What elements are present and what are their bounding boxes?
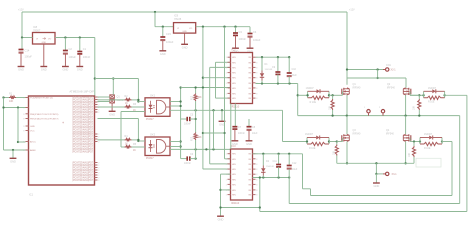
svg-text:IR2110: IR2110	[231, 201, 240, 205]
svg-text:C1: C1	[83, 47, 87, 51]
svg-text:R3: R3	[133, 103, 137, 106]
svg-text:PC817: PC817	[146, 118, 154, 121]
svg-text:VB: VB	[248, 190, 251, 192]
svg-text:8: 8	[256, 78, 258, 80]
svg-text:Q1: Q1	[353, 83, 357, 86]
svg-text:C10: C10	[292, 68, 297, 71]
svg-text:GND: GND	[63, 68, 69, 72]
svg-text:IRF540: IRF540	[353, 87, 362, 90]
svg-text:+: +	[62, 121, 64, 125]
svg-text:GND: GND	[18, 68, 24, 72]
svg-text:10K: 10K	[9, 100, 14, 103]
svg-text:OK1: OK1	[150, 93, 156, 97]
svg-text:HIN: HIN	[232, 164, 236, 166]
svg-text:10K: 10K	[330, 105, 332, 110]
svg-text:10uF: 10uF	[252, 132, 258, 135]
svg-text:ATMEGA8-16P-DIP: ATMEGA8-16P-DIP	[69, 90, 94, 94]
svg-text:100nF: 100nF	[184, 162, 191, 165]
svg-text:Q2: Q2	[387, 83, 391, 86]
svg-text:R5: R5	[133, 143, 137, 146]
svg-text:HIN: HIN	[232, 83, 236, 85]
svg-text:HIN: HIN	[232, 184, 236, 186]
svg-text:8: 8	[256, 179, 258, 181]
svg-text:1: 1	[364, 107, 366, 109]
svg-text:1: 1	[226, 57, 228, 59]
svg-text:C6: C6	[190, 153, 194, 156]
svg-text:100nF: 100nF	[83, 55, 91, 59]
svg-text:9: 9	[23, 114, 25, 116]
svg-text:VB: VB	[248, 159, 251, 161]
svg-text:10uF: 10uF	[292, 169, 298, 171]
svg-text:Q3: Q3	[353, 129, 357, 132]
svg-text:R2: R2	[125, 95, 129, 98]
svg-text:100uF: 100uF	[25, 55, 33, 59]
svg-text:R 10E: R 10E	[309, 148, 316, 150]
svg-text:AVCC: AVCC	[30, 141, 36, 144]
svg-text:1: 1	[226, 73, 228, 75]
svg-text:C3: C3	[239, 30, 243, 34]
svg-text:9: 9	[23, 131, 25, 133]
svg-text:1N4007: 1N4007	[306, 88, 315, 90]
svg-text:2: 2	[98, 142, 100, 144]
svg-text:C5: C5	[190, 114, 194, 117]
svg-text:HIN: HIN	[232, 154, 236, 156]
svg-text:2: 2	[98, 180, 100, 182]
svg-text:8: 8	[256, 98, 258, 100]
svg-text:CN1: CN1	[386, 64, 391, 67]
svg-text:C15: C15	[166, 32, 171, 36]
svg-text:1: 1	[226, 88, 228, 90]
svg-text:IRF540: IRF540	[387, 87, 396, 90]
svg-text:1N4007: 1N4007	[305, 134, 314, 136]
svg-text:VB: VB	[248, 62, 251, 64]
svg-text:HIN: HIN	[232, 179, 236, 181]
svg-text:78L05: 78L05	[174, 17, 182, 21]
svg-text:HIN: HIN	[232, 78, 236, 80]
svg-text:VO: VO	[48, 39, 51, 41]
svg-text:8: 8	[256, 62, 258, 64]
svg-text:9: 9	[23, 119, 25, 121]
svg-text:HIN: HIN	[232, 93, 236, 95]
svg-text:100nF: 100nF	[184, 123, 191, 126]
svg-text:R 10E: R 10E	[424, 148, 431, 150]
svg-text:GND: GND	[374, 184, 380, 188]
svg-text:8: 8	[256, 67, 258, 69]
svg-text:PB6(XTAL1/TOSC1/PCINT6): PB6(XTAL1/TOSC1/PCINT6)	[30, 113, 59, 116]
svg-text:8: 8	[256, 159, 258, 161]
svg-text:8: 8	[256, 93, 258, 95]
svg-text:GND: GND	[160, 52, 166, 56]
svg-text:Q4: Q4	[386, 129, 390, 132]
svg-text:8: 8	[256, 184, 258, 186]
svg-text:R13: R13	[192, 136, 194, 141]
svg-text:D2: D2	[266, 160, 270, 163]
svg-text:8: 8	[256, 169, 258, 171]
svg-text:HIN: HIN	[232, 159, 236, 161]
svg-text:7805T: 7805T	[33, 28, 41, 32]
svg-text:GND: GND	[218, 217, 224, 221]
svg-text:R4: R4	[125, 135, 129, 138]
svg-text:VB: VB	[248, 98, 251, 100]
svg-text:VB: VB	[248, 169, 251, 171]
svg-text:8: 8	[256, 88, 258, 90]
svg-text:IRF540: IRF540	[386, 133, 395, 136]
svg-text:VB: VB	[248, 88, 251, 90]
svg-text:10K: 10K	[414, 105, 416, 110]
svg-text:VI: VI	[177, 28, 179, 30]
svg-text:GND: GND	[232, 142, 238, 146]
svg-text:10K: 10K	[198, 97, 203, 99]
svg-text:GND: GND	[41, 68, 47, 72]
svg-text:D1: D1	[265, 63, 269, 66]
svg-text:GND: GND	[30, 126, 35, 128]
svg-text:IC2: IC2	[232, 48, 237, 52]
svg-text:GND: GND	[246, 142, 252, 146]
svg-text:GND: GND	[182, 46, 188, 50]
svg-text:HIN: HIN	[232, 73, 236, 75]
svg-text:100uF: 100uF	[166, 40, 174, 44]
svg-text:C11: C11	[273, 160, 278, 163]
svg-text:VB: VB	[248, 93, 251, 95]
svg-text:VI: VI	[36, 39, 38, 41]
svg-text:(PCINT23/AIN1)PD7: (PCINT23/AIN1)PD7	[72, 151, 94, 154]
svg-text:C14: C14	[25, 49, 30, 53]
svg-text:1N4148: 1N4148	[266, 166, 274, 168]
svg-text:AREF: AREF	[30, 149, 36, 152]
svg-text:VB: VB	[248, 179, 251, 181]
svg-text:R1: R1	[9, 93, 13, 96]
svg-text:PC6(RESET/PCINT14): PC6(RESET/PCINT14)	[30, 98, 53, 100]
svg-text:C12: C12	[292, 162, 297, 165]
svg-text:C8: C8	[252, 126, 256, 129]
svg-text:100uF: 100uF	[253, 38, 261, 42]
svg-text:GND: GND	[10, 160, 16, 164]
svg-text:8: 8	[256, 190, 258, 192]
svg-text:R12: R12	[192, 95, 194, 100]
svg-text:C7: C7	[238, 126, 242, 129]
svg-text:VCC: VCC	[30, 131, 35, 133]
svg-text:VB: VB	[248, 195, 251, 197]
svg-text:GND: GND	[109, 113, 115, 117]
svg-text:10uF: 10uF	[292, 75, 298, 77]
svg-text:1: 1	[226, 154, 228, 156]
svg-text:100uF: 100uF	[69, 55, 77, 59]
svg-text:1: 1	[226, 179, 228, 181]
svg-text:IRF540: IRF540	[353, 133, 362, 136]
svg-text:PB7(XTAL2/TOSC2/PCINT7): PB7(XTAL2/TOSC2/PCINT7)	[30, 118, 59, 121]
svg-text:R 10E: R 10E	[310, 102, 317, 104]
svg-text:100nF: 100nF	[238, 132, 245, 135]
svg-text:2: 2	[98, 112, 100, 114]
svg-text:(PCINT23/AIN1)PD7: (PCINT23/AIN1)PD7	[72, 179, 94, 182]
svg-text:VB: VB	[248, 57, 251, 59]
svg-text:HIN: HIN	[232, 190, 236, 192]
svg-text:VB: VB	[248, 184, 251, 186]
svg-text:VB: VB	[248, 174, 251, 176]
svg-text:HIN: HIN	[232, 67, 236, 69]
svg-text:10K: 10K	[198, 137, 203, 139]
svg-text:1: 1	[226, 93, 228, 95]
svg-text:IC1: IC1	[29, 193, 34, 197]
svg-text:C2: C2	[69, 47, 73, 51]
svg-text:1N4007: 1N4007	[428, 88, 437, 90]
svg-text:HIN: HIN	[232, 57, 236, 59]
svg-text:VB: VB	[248, 73, 251, 75]
svg-text:HIN: HIN	[232, 174, 236, 176]
svg-text:100nF: 100nF	[239, 37, 247, 41]
svg-text:VO: VO	[189, 28, 192, 30]
svg-text:+12V: +12V	[349, 9, 355, 12]
svg-text:1N4148: 1N4148	[265, 69, 273, 71]
svg-text:1N4007: 1N4007	[424, 134, 433, 136]
svg-text:1K: 1K	[133, 150, 136, 152]
svg-text:2: 2	[379, 107, 381, 109]
svg-text:8: 8	[256, 174, 258, 176]
svg-text:GND: GND	[182, 31, 187, 33]
svg-text:VB: VB	[248, 78, 251, 80]
svg-text:PC817: PC817	[146, 157, 154, 160]
svg-text:9: 9	[23, 126, 25, 128]
svg-text:Q1: Q1	[117, 96, 121, 99]
svg-text:1: 1	[226, 83, 228, 85]
svg-text:OK2: OK2	[150, 133, 156, 137]
svg-text:VB: VB	[248, 154, 251, 156]
svg-text:GND: GND	[77, 68, 83, 72]
svg-text:1: 1	[226, 184, 228, 186]
svg-text:+12V: +12V	[18, 9, 24, 12]
svg-text:10K: 10K	[334, 150, 336, 155]
svg-text:VB: VB	[248, 83, 251, 85]
svg-text:VB: VB	[248, 164, 251, 166]
svg-text:C9: C9	[272, 66, 276, 69]
svg-text:HIN: HIN	[232, 88, 236, 90]
svg-text:VB: VB	[248, 67, 251, 69]
svg-text:8: 8	[256, 73, 258, 75]
svg-text:8: 8	[256, 164, 258, 166]
svg-text:HIN: HIN	[232, 62, 236, 64]
svg-text:HIN: HIN	[232, 195, 236, 197]
svg-text:X2-1: X2-1	[391, 69, 397, 72]
svg-text:C4: C4	[253, 30, 257, 34]
svg-text:10K: 10K	[409, 152, 411, 157]
svg-text:GND: GND	[42, 42, 47, 44]
svg-text:R 10E: R 10E	[428, 102, 435, 104]
svg-text:1: 1	[226, 195, 228, 197]
svg-text:HIN: HIN	[232, 169, 236, 171]
svg-text:X3-1: X3-1	[392, 173, 398, 176]
svg-text:HIN: HIN	[232, 98, 236, 100]
svg-text:8: 8	[256, 195, 258, 197]
